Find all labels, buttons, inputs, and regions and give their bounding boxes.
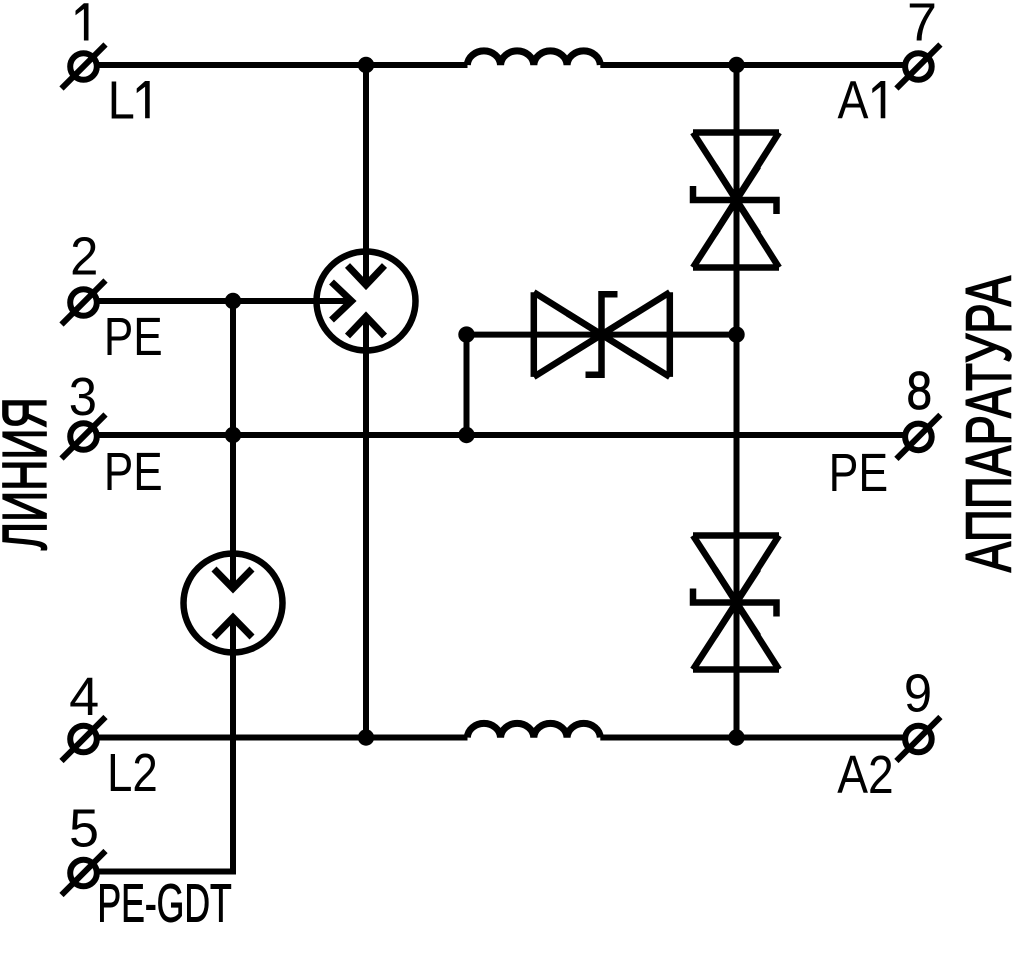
svg-text:PE: PE <box>104 442 163 502</box>
svg-text:A: A <box>837 69 868 130</box>
svg-text:5: 5 <box>69 799 99 859</box>
svg-text:PE: PE <box>829 442 889 503</box>
svg-text:L2: L2 <box>107 742 158 802</box>
svg-text:ЛИНИЯ: ЛИНИЯ <box>0 397 60 550</box>
svg-text:PE: PE <box>104 307 163 367</box>
svg-text:4: 4 <box>69 667 99 727</box>
svg-text:PE-GDT: PE-GDT <box>97 873 231 933</box>
svg-text:9: 9 <box>904 664 932 724</box>
svg-text:A2: A2 <box>837 744 893 804</box>
svg-text:7: 7 <box>907 0 937 53</box>
svg-text:L: L <box>108 69 135 130</box>
svg-text:АППАРАТУРА: АППАРАТУРА <box>953 275 1024 572</box>
svg-text:2: 2 <box>70 227 98 287</box>
svg-text:8: 8 <box>907 361 933 421</box>
svg-text:3: 3 <box>69 367 97 427</box>
